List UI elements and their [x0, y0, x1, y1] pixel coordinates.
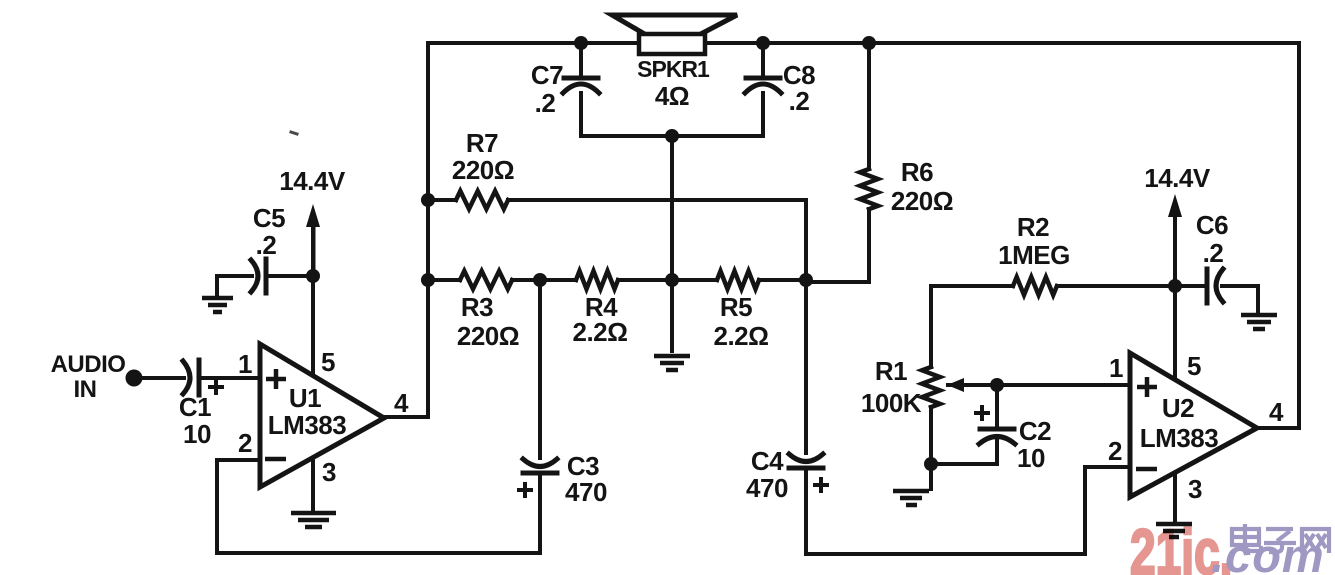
wire top supply rail	[428, 41, 1299, 45]
node at wiper / C2	[990, 378, 1004, 392]
svg-text:.2: .2	[256, 230, 277, 260]
polarity mark C3	[517, 482, 533, 498]
svg-text:R1: R1	[875, 356, 907, 386]
op-amp U2 minus input mark	[1136, 467, 1157, 472]
svg-text:R5: R5	[720, 292, 752, 322]
node at C8 / rail	[756, 36, 770, 50]
svg-text:C4: C4	[751, 446, 784, 476]
resistor R2	[1013, 277, 1057, 295]
capacitor C7	[563, 78, 599, 93]
resistor R3	[460, 271, 512, 289]
wire speaker center tap down	[670, 136, 674, 280]
watermark 21ic.com logo	[1130, 517, 1329, 575]
wire right vertical (U2 output to rail)	[1297, 43, 1301, 428]
14.4V supply arrow (right)	[1168, 194, 1182, 217]
capacitor C1	[183, 360, 199, 395]
ground (C6)	[1241, 315, 1277, 329]
resistor R6	[860, 169, 878, 209]
node at C5 / 14.4V	[306, 269, 320, 283]
resistor R5	[717, 271, 759, 289]
capacitor C3	[523, 459, 557, 473]
wire C1 to U1 pin1	[200, 376, 260, 380]
op-amp U2 plus input mark	[1137, 377, 1157, 397]
wire U1 pin4 output to left vertical	[382, 415, 428, 419]
wire R2 left corner down to R1	[929, 286, 933, 367]
svg-text:2.2Ω: 2.2Ω	[714, 321, 769, 351]
wire U2 pin3 ground stub	[1173, 470, 1177, 522]
svg-text:C7: C7	[531, 60, 563, 90]
wire C3 branch	[538, 280, 542, 553]
wire left vertical (U1 output to rail)	[426, 43, 430, 417]
svg-text:.2: .2	[535, 88, 556, 118]
svg-text:470: 470	[746, 473, 788, 503]
svg-text:220Ω: 220Ω	[457, 321, 519, 351]
node at R5 / C4 / R6	[799, 273, 813, 287]
node at R1 bottom / C2 bottom	[924, 457, 938, 471]
wire R1 bottom to ground node	[929, 407, 933, 489]
wire C8 branch	[761, 43, 765, 136]
svg-text:470: 470	[565, 477, 607, 507]
svg-text:220Ω: 220Ω	[452, 155, 514, 185]
svg-text:U1: U1	[289, 383, 321, 413]
svg-text:.2: .2	[1203, 238, 1224, 268]
polarity mark C1	[208, 379, 224, 395]
ground (C5)	[202, 298, 233, 312]
svg-text:C6: C6	[1196, 210, 1228, 240]
ground (center tap)	[654, 356, 690, 370]
svg-text:.com: .com	[1211, 529, 1325, 575]
op-amp U1 plus input mark	[266, 369, 286, 389]
svg-text:100K: 100K	[861, 388, 922, 418]
svg-text:LM383: LM383	[1140, 423, 1218, 453]
svg-text:4: 4	[394, 388, 409, 418]
14.4V supply arrow (left)	[306, 204, 320, 227]
wire C4 branch	[804, 280, 808, 554]
svg-text:3: 3	[322, 457, 336, 487]
wire 14.4V left supply to U1 pin5	[311, 213, 315, 378]
svg-text:C1: C1	[179, 392, 211, 422]
resistor R1 potentiometer body	[922, 367, 940, 407]
node at R6 / rail	[862, 36, 876, 50]
svg-text:4: 4	[1269, 397, 1284, 427]
svg-text:10: 10	[183, 419, 211, 449]
wire U2 pin5	[1173, 286, 1177, 382]
svg-text:U2: U2	[1162, 393, 1194, 423]
wire R3/R4/R5 row	[428, 278, 806, 282]
node at R3 / C3	[533, 273, 547, 287]
svg-text:1MEG: 1MEG	[998, 240, 1070, 270]
capacitor C2	[979, 429, 1015, 444]
svg-text:R3: R3	[461, 292, 493, 322]
svg-text:1: 1	[238, 349, 252, 379]
ground (R1 bottom)	[893, 491, 929, 505]
node at R4 / center tap	[665, 273, 679, 287]
resistor R4	[576, 271, 618, 289]
svg-text:IN: IN	[74, 376, 97, 403]
capacitor C8	[745, 78, 781, 93]
wire R7 right corner down to node	[804, 200, 808, 280]
wire C5 link (node to cap to ground)	[217, 276, 313, 296]
wire R6 bottom link	[806, 43, 869, 282]
wire R2 row	[931, 284, 1175, 288]
node at C6 / 14.4V	[1168, 279, 1182, 293]
wire U1 pin3 ground stub	[311, 452, 315, 511]
wire C6 link (node to cap to ground)	[1175, 286, 1258, 313]
wire speaker loop bottom	[581, 134, 763, 138]
node at left vertical / R7	[421, 193, 435, 207]
wire center ground stub	[670, 280, 674, 351]
svg-text:LM383: LM383	[268, 410, 346, 440]
op-amp U1 minus input mark	[265, 457, 286, 462]
svg-text:SPKR1: SPKR1	[637, 56, 710, 82]
wire bottom right feedback rail (C4 to U2 pin2)	[806, 467, 1130, 554]
wire bottom left feedback rail (C3 to U1 pin2)	[217, 460, 540, 553]
wire 14.4V right supply shaft	[1173, 203, 1177, 286]
node at speaker center tap	[665, 129, 679, 143]
svg-text:5: 5	[321, 347, 335, 377]
svg-text:220Ω: 220Ω	[891, 186, 953, 216]
svg-text:2.2Ω: 2.2Ω	[573, 317, 628, 347]
capacitor C5	[251, 259, 266, 293]
node at left vertical / R3	[421, 273, 435, 287]
stray scan speck	[291, 132, 297, 134]
resistor R7	[456, 191, 508, 209]
speaker SPKR1 body	[639, 34, 705, 54]
op-amp U2 triangle	[1130, 353, 1257, 497]
capacitor C6	[1207, 269, 1223, 303]
potentiometer wiper arrowhead	[947, 378, 964, 392]
ground (U1 pin3)	[291, 513, 336, 527]
wire U2 pin4 output to right vertical	[1257, 426, 1299, 430]
polarity mark C2	[974, 405, 990, 421]
svg-text:14.4V: 14.4V	[279, 166, 346, 196]
input terminal	[126, 370, 143, 387]
svg-text:3: 3	[1188, 474, 1202, 504]
wire R1 wiper to U2 pin1	[948, 383, 1130, 387]
svg-text:1: 1	[1109, 353, 1123, 383]
ground (U2 pin3)	[1156, 524, 1192, 537]
svg-text:C5: C5	[253, 203, 285, 233]
op-amp U1 triangle	[260, 344, 384, 487]
wire R7 row from left vertical	[428, 198, 806, 202]
svg-text:2: 2	[238, 428, 252, 458]
svg-text:AUDIO: AUDIO	[51, 351, 126, 378]
wire audio input lead	[141, 376, 184, 380]
wire C2 branch	[931, 385, 997, 464]
speaker SPKR1 horn	[612, 15, 737, 36]
svg-text:C2: C2	[1019, 416, 1051, 446]
svg-text:5: 5	[1187, 351, 1201, 381]
svg-text:2: 2	[1108, 436, 1122, 466]
polarity mark C4	[813, 477, 829, 493]
svg-text:R2: R2	[1017, 212, 1049, 242]
node at C7 / rail	[574, 36, 588, 50]
wire C7 branch (rail to speaker loop)	[579, 43, 583, 136]
svg-text:4Ω: 4Ω	[655, 81, 689, 111]
svg-text:R6: R6	[901, 157, 933, 187]
svg-text:14.4V: 14.4V	[1144, 163, 1211, 193]
svg-text:10: 10	[1017, 443, 1045, 473]
capacitor C4	[789, 454, 823, 468]
svg-text:.2: .2	[789, 86, 810, 116]
svg-text:R7: R7	[466, 128, 498, 158]
